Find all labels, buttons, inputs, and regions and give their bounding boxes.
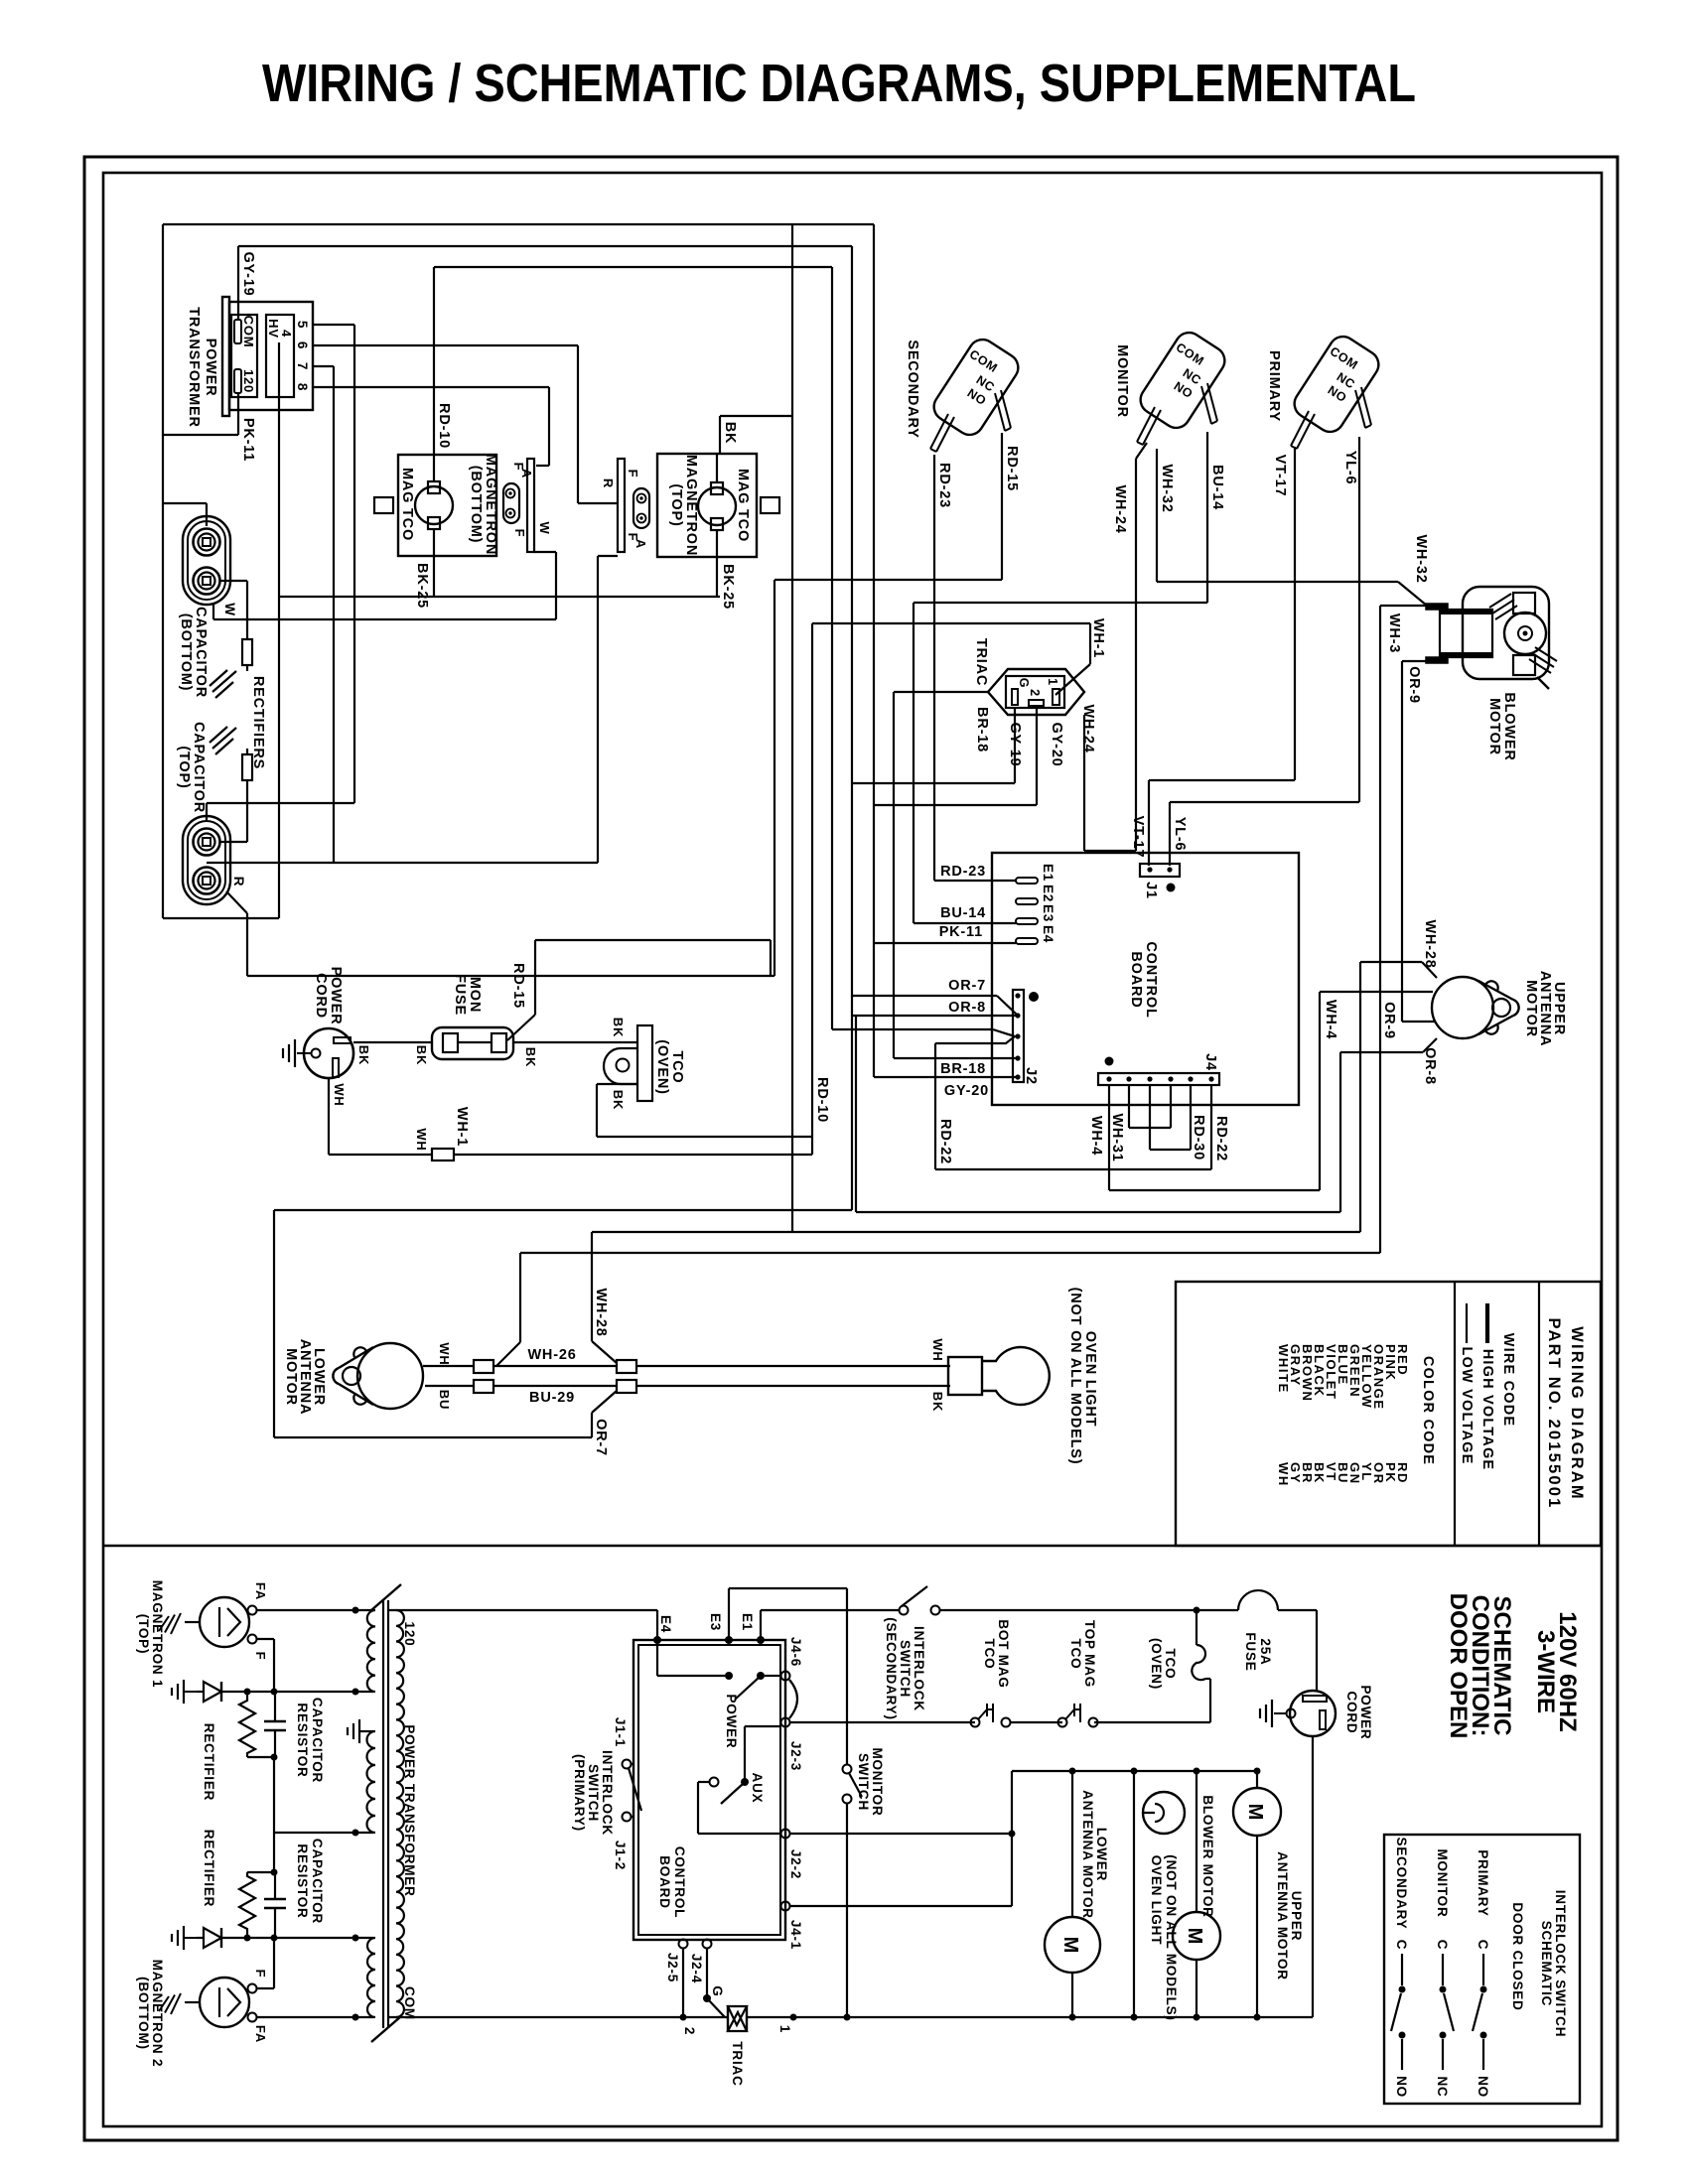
oven light (pictorial) (930, 1288, 1098, 1465)
wire 120 bus (388, 1609, 657, 1611)
svg-text:MAGNETRON: MAGNETRON (683, 455, 699, 556)
svg-text:POWER: POWER (203, 339, 218, 397)
svg-text:BOT MAG: BOT MAG (996, 1619, 1011, 1688)
wire RD-15 (774, 433, 1020, 976)
svg-text:WH-32: WH-32 (1413, 534, 1429, 583)
svg-text:HIGH VOLTAGE: HIGH VOLTAGE (1479, 1349, 1495, 1471)
svg-text:J2: J2 (1023, 1067, 1039, 1085)
svg-text:E3: E3 (1041, 904, 1055, 922)
capacitor (top) (176, 722, 246, 904)
interlock switch schematic table (1384, 1835, 1580, 2104)
svg-text:WIRING DIAGRAM: WIRING DIAGRAM (1568, 1326, 1586, 1501)
svg-text:BK: BK (414, 1045, 429, 1065)
svg-text:MAG TCO: MAG TCO (735, 469, 751, 542)
svg-text:C: C (1476, 1940, 1490, 1951)
capacitor-resistor 1 label (295, 1698, 325, 1783)
svg-text:MAGNETRON 2: MAGNETRON 2 (150, 1960, 165, 2068)
svg-text:TRIAC: TRIAC (973, 638, 989, 686)
wire OR-7 routing loop (274, 1210, 852, 1437)
power transformer T1 (186, 297, 313, 428)
svg-text:OR-9: OR-9 (1406, 666, 1422, 704)
wiring legend box (1176, 1282, 1601, 1546)
bot mag TCO switch (971, 1619, 1012, 1726)
svg-text:J1-2: J1-2 (613, 1841, 628, 1870)
magnetron 1 (top) schematic (136, 1580, 268, 1689)
svg-text:BU-14: BU-14 (1209, 465, 1225, 510)
svg-text:MAGNETRON: MAGNETRON (483, 454, 498, 555)
wire WH-31 from J4 (1109, 1085, 1171, 1162)
svg-text:(TOP): (TOP) (176, 746, 192, 788)
svg-text:MOTOR: MOTOR (1523, 980, 1539, 1037)
svg-text:POWER: POWER (724, 1694, 739, 1748)
wire OR-8 into J2 (852, 1000, 1018, 1016)
wire magnetron1 FA to transformer (256, 1607, 373, 1614)
rectifier 2 schematic (172, 1830, 247, 1950)
svg-text:WH-31: WH-31 (1109, 1113, 1125, 1161)
svg-text:SWITCH: SWITCH (898, 1640, 913, 1698)
svg-text:J2-5: J2-5 (665, 1953, 680, 1982)
wire WH-28 to upper antenna motor (592, 919, 1438, 1232)
svg-text:(OVEN): (OVEN) (654, 1039, 670, 1095)
wire HV node 2 (244, 1935, 374, 1942)
svg-text:2: 2 (682, 2027, 697, 2035)
magnetron (bottom) FA terminal plate (503, 459, 552, 552)
svg-text:AUX: AUX (750, 1773, 765, 1804)
svg-text:WH-1: WH-1 (454, 1107, 470, 1147)
svg-text:OVEN LIGHT: OVEN LIGHT (1082, 1331, 1098, 1428)
wire RD-30 from J4 (1150, 1085, 1206, 1160)
wire VT-17 (1149, 447, 1295, 866)
svg-text:NO: NO (1476, 2076, 1490, 2098)
svg-text:G: G (1017, 678, 1031, 689)
svg-text:WH: WH (332, 1083, 347, 1106)
svg-text:SWITCH: SWITCH (856, 1753, 871, 1811)
wire plug into J2 pin 3 (832, 1029, 1015, 1043)
svg-text:LOW VOLTAGE: LOW VOLTAGE (1459, 1347, 1475, 1465)
svg-text:SCHEMATIC: SCHEMATIC (1539, 1921, 1554, 2006)
transformer primary winding (396, 1610, 404, 2017)
svg-text:RD-23: RD-23 (940, 864, 986, 880)
svg-text:BU-29: BU-29 (529, 1390, 575, 1406)
svg-text:OR-7: OR-7 (593, 1419, 609, 1456)
magnetron 2 (bottom) schematic (136, 1960, 268, 2068)
svg-text:(NOT ON ALL MODELS): (NOT ON ALL MODELS) (1067, 1288, 1083, 1465)
wire BK-25 from magnetron bottom (414, 529, 434, 609)
upper antenna motor (1432, 971, 1567, 1047)
power cord (pictorial) (283, 967, 353, 1078)
transformer schematic labels (402, 1622, 417, 2020)
wire GY-20 from triac pin 2 (874, 224, 1064, 1077)
connector J4 (1098, 1053, 1219, 1085)
svg-text:M: M (1184, 1928, 1205, 1945)
svg-text:PK-11: PK-11 (240, 418, 256, 462)
svg-text:E3: E3 (708, 1613, 723, 1631)
svg-text:DOOR OPEN: DOOR OPEN (1445, 1593, 1472, 1739)
upper antenna motor schematic (1233, 1771, 1304, 2017)
svg-text:BK: BK (523, 1047, 538, 1067)
terminal E1 schematic (740, 1610, 765, 1644)
svg-text:F: F (626, 470, 640, 478)
resistor R2 (219, 749, 252, 842)
svg-text:M: M (1059, 1937, 1081, 1954)
svg-text:J1: J1 (1143, 882, 1159, 899)
svg-text:VT-17: VT-17 (1130, 816, 1146, 859)
svg-text:WH: WH (414, 1128, 429, 1151)
svg-text:MONITOR: MONITOR (870, 1747, 885, 1816)
legend title WIRING DIAGRAM PART NO (1545, 1317, 1586, 1509)
svg-text:TOP MAG: TOP MAG (1082, 1620, 1097, 1688)
svg-text:E1: E1 (1041, 864, 1055, 882)
wire BK from TCO bottom (597, 1084, 812, 1137)
svg-text:BU-14: BU-14 (940, 905, 986, 921)
svg-text:J4-1: J4-1 (788, 1920, 803, 1950)
svg-text:VT-17: VT-17 (1272, 455, 1288, 497)
svg-text:RD-23: RD-23 (936, 463, 952, 508)
wire from transformer pin 5 (313, 325, 354, 803)
pin J2-4 and gate wire (689, 1940, 725, 2018)
svg-text:RESISTOR: RESISTOR (295, 1703, 310, 1777)
terminal E3 schematic (708, 1588, 733, 1644)
interlock switch MONITOR (1114, 328, 1230, 445)
wire capacitor top R run (226, 891, 774, 976)
wire RD-23 (934, 455, 1016, 881)
svg-text:WH-3: WH-3 (1386, 614, 1402, 653)
ground at filament winding (348, 1719, 373, 1743)
pin J2-3 (781, 1718, 804, 1772)
svg-text:OR-8: OR-8 (1422, 1047, 1438, 1085)
wire BR-18 from triac (894, 692, 990, 1058)
svg-text:120: 120 (402, 1622, 417, 1647)
svg-text:C: C (1435, 1940, 1450, 1951)
svg-text:MONITOR: MONITOR (1114, 344, 1130, 418)
table row monitor (1435, 1848, 1454, 2097)
mon fuse (432, 974, 513, 1059)
lower antenna motor (283, 1339, 423, 1416)
svg-text:(BOTTOM): (BOTTOM) (178, 614, 194, 692)
resistor 1 schematic zigzag (239, 1692, 274, 1757)
svg-text:FUSE: FUSE (1243, 1632, 1258, 1671)
wire HV-4 lead (278, 342, 280, 918)
svg-text:TCO: TCO (1163, 1649, 1178, 1680)
wire box around TCO oven (535, 940, 771, 1015)
schematic condition heading (1445, 1593, 1515, 1739)
svg-text:6: 6 (295, 341, 310, 349)
wire RD-15 to fuse (507, 963, 535, 1040)
inner border frame (103, 173, 1602, 2126)
wire WH / WH-26 run (423, 1342, 950, 1373)
svg-text:COM: COM (402, 1986, 417, 2020)
wire OR-7 into J2 (852, 978, 1018, 1016)
wire RD-10 from magnetron bottom (434, 267, 832, 1029)
wire J2-2 run (789, 1831, 1016, 1838)
svg-text:TRIAC: TRIAC (730, 2041, 745, 2086)
svg-text:POWER: POWER (1358, 1685, 1373, 1739)
svg-text:OR-7: OR-7 (948, 978, 986, 994)
svg-text:INTERLOCK: INTERLOCK (912, 1626, 926, 1711)
resistor R1 (219, 581, 252, 671)
svg-text:WH-26: WH-26 (527, 1347, 576, 1363)
wire BK-25 bus (279, 596, 720, 598)
svg-text:ANTENNA MOTOR: ANTENNA MOTOR (1275, 1851, 1290, 1980)
svg-text:BK-25: BK-25 (720, 564, 736, 610)
wire WH-32 into blower (1398, 534, 1429, 606)
svg-text:BK: BK (722, 422, 738, 445)
svg-text:(BOTTOM): (BOTTOM) (468, 466, 484, 544)
wire capacitor top runs (207, 803, 598, 863)
svg-text:WH-28: WH-28 (593, 1288, 609, 1336)
svg-text:CAPACITOR: CAPACITOR (191, 722, 207, 813)
svg-text:YL-6: YL-6 (1172, 817, 1188, 852)
svg-text:WH-32: WH-32 (1159, 464, 1175, 512)
transformer filament winding (367, 1731, 376, 1833)
aux relay inside control board (698, 1726, 780, 1834)
TCO (oven) pictorial (604, 1018, 685, 1110)
svg-text:BLOWER MOTOR: BLOWER MOTOR (1200, 1795, 1215, 1917)
svg-text:RECTIFIER: RECTIFIER (202, 1830, 216, 1907)
svg-text:BK: BK (356, 1045, 371, 1065)
svg-text:F: F (253, 1970, 268, 1979)
wire BK fuse to TCO (513, 1042, 637, 1067)
svg-text:BK: BK (611, 1090, 626, 1110)
svg-text:TCO: TCO (1068, 1639, 1083, 1670)
svg-text:5: 5 (295, 321, 310, 329)
magnetron (top) (657, 454, 779, 557)
svg-text:SWITCH: SWITCH (586, 1764, 601, 1822)
svg-text:FA: FA (253, 2025, 268, 2043)
legend wire code (1459, 1303, 1516, 1470)
svg-text:M: M (1244, 1804, 1266, 1821)
svg-text:BK-25: BK-25 (414, 563, 430, 609)
svg-text:OR-8: OR-8 (948, 1000, 986, 1016)
monitor switch schematic (843, 1747, 886, 2017)
svg-text:BR-18: BR-18 (974, 707, 990, 752)
svg-text:POWER TRANSFORMER: POWER TRANSFORMER (402, 1724, 417, 1896)
wire E1 bus with interlock (761, 1609, 900, 1611)
svg-text:W: W (222, 603, 237, 616)
wire WH-32 from monitor switch (1157, 449, 1398, 582)
svg-text:SECONDARY: SECONDARY (905, 340, 920, 438)
svg-text:RECTIFIER: RECTIFIER (202, 1723, 216, 1801)
top mag TCO switch (1058, 1620, 1098, 1727)
wire RD-10 vertical run (812, 623, 830, 1155)
wire BU-14 (914, 432, 1225, 923)
svg-text:POWER: POWER (328, 967, 344, 1025)
svg-text:RESISTOR: RESISTOR (295, 1843, 310, 1918)
svg-text:WH-24: WH-24 (1112, 484, 1128, 533)
wire WH-28 drop to connector (592, 1232, 617, 1363)
svg-text:RD-22: RD-22 (937, 1119, 953, 1164)
magnetron (top) FA terminal plate (601, 459, 649, 552)
svg-text:DOOR CLOSED: DOOR CLOSED (1510, 1902, 1525, 2010)
svg-text:COM: COM (241, 316, 256, 348)
svg-text:BOARD: BOARD (1128, 951, 1144, 1008)
svg-text:BR-18: BR-18 (940, 1061, 986, 1077)
transformer secondary winding 2 (367, 1938, 375, 2017)
svg-text:CONTROL: CONTROL (1143, 941, 1159, 1018)
TCO oven schematic coil (1094, 1610, 1210, 1722)
table row primary (1473, 1849, 1490, 2098)
wire R to magnetron top plate (578, 459, 618, 863)
svg-text:J2-4: J2-4 (689, 1954, 704, 1983)
svg-text:PRIMARY: PRIMARY (1476, 1849, 1490, 1916)
blower motor winding box (1426, 604, 1492, 663)
svg-text:MOTOR: MOTOR (1486, 698, 1502, 755)
wire magnetron1 F (256, 1639, 274, 1692)
blower motor schematic (1173, 1771, 1220, 2017)
wire BR-18 into J2 (894, 1058, 1018, 1077)
legend color code table (1276, 1344, 1436, 1487)
rectifier 1 schematic (172, 1680, 247, 1801)
bottom COM bus (388, 2014, 1313, 2021)
svg-text:CAPACITOR: CAPACITOR (193, 607, 209, 698)
svg-text:1: 1 (777, 2025, 792, 2033)
svg-text:NC: NC (1435, 2076, 1450, 2097)
svg-text:NO: NO (1394, 2076, 1409, 2098)
svg-text:GY-20: GY-20 (944, 1083, 989, 1099)
svg-text:J4: J4 (1202, 1053, 1218, 1071)
power transformer schematic core (371, 1584, 401, 2042)
svg-text:MON: MON (467, 977, 483, 1013)
wire between TCOs (1010, 1721, 1062, 1723)
wire J4-1 run (789, 1771, 1012, 1906)
wire GY-19 from transformer COM (238, 246, 852, 1210)
svg-text:E4: E4 (658, 1615, 673, 1633)
svg-text:25A: 25A (1258, 1638, 1273, 1665)
top bus of loads (1012, 1768, 1261, 1775)
oven light schematic (1134, 1771, 1185, 2021)
control board schematic (633, 1640, 785, 1940)
svg-text:J2-2: J2-2 (788, 1849, 803, 1879)
svg-text:COLOR CODE: COLOR CODE (1420, 1356, 1436, 1465)
wire capacitor bottom W run (213, 552, 556, 619)
resistor 2 schematic zigzag (239, 1872, 274, 1938)
svg-text:RD-30: RD-30 (1191, 1115, 1206, 1160)
svg-text:R: R (601, 478, 616, 488)
svg-text:G: G (710, 1985, 725, 1996)
wire loop around transformer area (163, 224, 874, 918)
svg-text:BU: BU (437, 1390, 452, 1410)
svg-text:C: C (1394, 1940, 1409, 1951)
svg-text:WIRING / SCHEMATIC DIAGRAMS, S: WIRING / SCHEMATIC DIAGRAMS, SUPPLEMENTA… (262, 54, 1416, 113)
terminal E3 (1016, 918, 1038, 924)
pin J4-1 (781, 1902, 804, 1951)
svg-text:LOWER: LOWER (1094, 1828, 1109, 1881)
svg-text:RD-15: RD-15 (510, 963, 526, 1009)
svg-text:FA: FA (253, 1582, 268, 1600)
wire WH-24 from monitor switch (1084, 443, 1147, 851)
svg-text:WH: WH (437, 1342, 452, 1365)
wire OR-8 to upper antenna motor (856, 1016, 1438, 1212)
svg-text:WH-4: WH-4 (1088, 1116, 1104, 1156)
svg-text:F: F (512, 529, 527, 538)
svg-text:GY-20: GY-20 (1049, 722, 1064, 766)
jumper J4-6 to J2-3 (789, 1680, 797, 1718)
triac schematic (682, 2006, 797, 2087)
svg-text:CORD: CORD (313, 973, 329, 1019)
svg-text:A: A (633, 539, 648, 549)
wire WH-3 from blower (496, 606, 1427, 1366)
svg-text:WIRE CODE: WIRE CODE (1500, 1333, 1516, 1428)
svg-text:TCO: TCO (669, 1050, 685, 1083)
svg-text:CAPACITOR: CAPACITOR (310, 1839, 325, 1924)
svg-text:E1: E1 (740, 1613, 755, 1631)
svg-text:(PRIMARY): (PRIMARY) (572, 1754, 587, 1832)
svg-text:WH-24: WH-24 (1080, 704, 1096, 752)
interlock switch primary schematic (572, 1717, 641, 1870)
lower antenna motor schematic (1045, 1771, 1109, 2017)
wire BK from power cord (353, 1042, 432, 1065)
svg-text:(TOP): (TOP) (136, 1614, 151, 1655)
svg-text:OR-9: OR-9 (1381, 1002, 1397, 1039)
wire from transformer pin 6 (313, 345, 578, 459)
terminal labels E1-E4 (1041, 864, 1055, 943)
capacitor (bottom) (178, 516, 237, 698)
wire GY-19 to triac gate (852, 708, 1023, 783)
control board (wiring diagram) (992, 853, 1299, 1105)
interlock switch secondary schematic (884, 1586, 940, 1720)
terminal E4 (1016, 938, 1038, 944)
svg-text:MONITOR: MONITOR (1435, 1848, 1450, 1917)
wire HV node 1 (244, 1689, 374, 1696)
svg-text:4: 4 (279, 330, 294, 338)
svg-text:INTERLOCK SWITCH: INTERLOCK SWITCH (1553, 1890, 1568, 2038)
capacitor-resistor 2 label (295, 1839, 325, 1924)
wire PK-11 into E4 pad (874, 942, 1016, 944)
svg-text:BOARD: BOARD (657, 1855, 672, 1909)
svg-text:MAG TCO: MAG TCO (399, 468, 415, 541)
wire J2-3 to mag TCOs (789, 1721, 975, 1723)
svg-text:PRIMARY: PRIMARY (1266, 350, 1282, 422)
svg-text:CAPACITOR: CAPACITOR (310, 1698, 325, 1783)
wire WH-1 to triac pin 1 (812, 618, 1106, 695)
wire to middle winding (274, 1757, 373, 1837)
wire RD-22 vertical at J2 (935, 1043, 1211, 1169)
interlock switch PRIMARY (1266, 332, 1384, 449)
pin J4-6 (781, 1637, 804, 1681)
connector J2 (1013, 990, 1039, 1085)
svg-text:A: A (519, 469, 534, 478)
svg-text:CORD: CORD (1344, 1692, 1359, 1734)
wire cap2 to middle winding (273, 1833, 275, 1872)
svg-text:YL-6: YL-6 (1342, 451, 1358, 485)
svg-text:UPPER: UPPER (1289, 1891, 1304, 1942)
wire OR-9 from blower (1402, 661, 1436, 1022)
wire from transformer pin 7 (313, 366, 334, 863)
svg-text:J1-1: J1-1 (613, 1717, 628, 1747)
table row secondary (1391, 1838, 1409, 2098)
interlock switch SECONDARY (905, 335, 1024, 452)
svg-text:TCO: TCO (982, 1639, 997, 1670)
triac (pictorial connector) (973, 638, 1084, 715)
wire PK-11 from transformer 120 terminal (163, 393, 256, 462)
svg-text:J2-3: J2-3 (788, 1741, 803, 1771)
svg-text:1: 1 (1046, 678, 1059, 686)
transformer secondary winding 1 (367, 1610, 375, 1692)
svg-text:MAGNETRON 1: MAGNETRON 1 (150, 1580, 165, 1689)
terminal E4 schematic (653, 1610, 673, 1644)
svg-text:RD-10: RD-10 (814, 1077, 830, 1123)
rectifier CR1 (210, 670, 236, 698)
svg-text:RD-15: RD-15 (1004, 446, 1020, 491)
svg-text:FUSE: FUSE (452, 974, 468, 1016)
fuse 25A schematic (1196, 1590, 1317, 1672)
svg-text:8: 8 (295, 383, 310, 391)
svg-text:BK: BK (611, 1018, 626, 1037)
wire WH-4 from J4 (1088, 1085, 1109, 1190)
svg-text:R: R (231, 877, 246, 887)
svg-text:WH: WH (930, 1338, 945, 1361)
svg-text:(OVEN): (OVEN) (1149, 1638, 1164, 1690)
